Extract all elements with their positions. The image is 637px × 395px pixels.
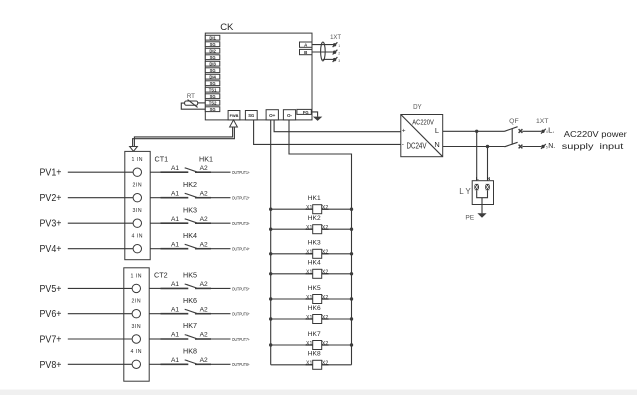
svg-text:DI2: DI2 — [209, 49, 216, 54]
wire PV7+ to CT2-3 — [68, 338, 132, 340]
svg-text:2IN: 2IN — [133, 183, 143, 189]
svg-text:FG: FG — [303, 110, 309, 115]
svg-text:1: 1 — [338, 44, 340, 48]
svg-text:HK7: HK7 — [183, 321, 197, 330]
switch contact HK4 (A1-A2) — [150, 231, 250, 252]
svg-text:X2: X2 — [322, 250, 328, 256]
svg-text:A1: A1 — [171, 216, 179, 223]
terminal 1XT-1 — [333, 42, 341, 48]
pin box SG (3) — [205, 68, 220, 73]
svg-text:HK4: HK4 — [183, 231, 197, 240]
svg-text:CK: CK — [220, 22, 234, 33]
svg-text:N: N — [487, 176, 491, 182]
ground PE — [477, 213, 486, 218]
junction dot N to LY — [486, 145, 489, 148]
svg-text:HK8: HK8 — [183, 346, 197, 355]
svg-text:HK3: HK3 — [308, 240, 321, 247]
switch contact HK8 (A1-A2) — [149, 346, 250, 367]
svg-text:HK4: HK4 — [308, 260, 321, 267]
svg-text:X2: X2 — [322, 205, 328, 211]
svg-text:PV4+: PV4+ — [40, 244, 62, 255]
thermistor RT strike line — [188, 100, 198, 108]
svg-text:X1: X1 — [306, 270, 312, 276]
svg-text:OUTPUT2+: OUTPUT2+ — [232, 196, 250, 201]
CT2 input circle 3 — [132, 335, 140, 343]
svg-text:AC220V power: AC220V power — [564, 130, 627, 139]
svg-text:SG: SG — [210, 55, 216, 60]
svg-text:X1: X1 — [306, 295, 312, 301]
svg-text:OUTPUT7+: OUTPUT7+ — [232, 337, 250, 342]
pin box SG (1) — [205, 42, 220, 47]
svg-text:SG: SG — [248, 113, 254, 118]
svg-text:HK2: HK2 — [308, 215, 321, 222]
svg-text:DI4: DI4 — [209, 75, 216, 80]
svg-text:HK6: HK6 — [308, 305, 321, 312]
svg-text:4 IN: 4 IN — [131, 349, 143, 355]
switch contact HK1 (A1-A2) — [150, 154, 250, 175]
wire RT to TS2 — [198, 102, 206, 104]
wire PV2+ to CT1-2 — [68, 197, 133, 199]
svg-text:HK3: HK3 — [183, 205, 197, 214]
svg-text:1 IN: 1 IN — [131, 273, 143, 279]
wire L junction down to LY — [476, 131, 478, 184]
wire FG to ground — [311, 112, 317, 117]
svg-text:X2: X2 — [322, 315, 328, 321]
svg-text:A2: A2 — [200, 332, 208, 339]
wire PV5+ to CT2-1 — [68, 287, 132, 289]
CT1 input circle 3 — [133, 219, 141, 227]
surge protector LY outline — [472, 181, 493, 205]
DY diagonal divider — [401, 115, 443, 157]
svg-text:FWB: FWB — [230, 114, 239, 118]
svg-text:OUTPUT1+: OUTPUT1+ — [232, 170, 250, 175]
power supply DY outline — [401, 115, 443, 157]
svg-text:DI3: DI3 — [209, 62, 216, 67]
svg-text:PV2+: PV2+ — [40, 193, 62, 204]
relay coil HK2 (X1-X2) — [271, 215, 352, 234]
hollow arrowhead into CT1 — [130, 147, 138, 152]
breaker QF contact x mark (N) — [519, 145, 523, 149]
svg-text:X2: X2 — [322, 341, 328, 347]
svg-text:HK1: HK1 — [199, 154, 213, 163]
svg-text:SG: SG — [210, 68, 216, 73]
svg-text:supply input: supply input — [562, 142, 624, 151]
svg-text:L.: L. — [548, 127, 555, 134]
pin box DI2 — [205, 48, 220, 53]
wire PV6+ to CT2-2 — [68, 313, 132, 315]
svg-text:4 IN: 4 IN — [132, 234, 144, 240]
svg-text:L: L — [435, 126, 439, 135]
svg-text:2: 2 — [338, 51, 340, 55]
svg-text:A2: A2 — [200, 241, 208, 248]
svg-text:A1: A1 — [171, 306, 179, 313]
pin box TS2 — [205, 100, 220, 105]
svg-text:A2: A2 — [200, 357, 208, 364]
svg-text:X1: X1 — [306, 361, 312, 367]
CT2 block outline — [124, 268, 149, 381]
svg-text:HK1: HK1 — [308, 195, 321, 202]
wire right bus from O- — [289, 120, 352, 365]
svg-text:1 IN: 1 IN — [132, 157, 144, 163]
svg-text:PV7+: PV7+ — [40, 335, 62, 346]
junction dots on buses at HK4 rung — [269, 272, 353, 275]
svg-text:+: + — [402, 128, 406, 135]
svg-text:LY: LY — [459, 187, 473, 196]
breaker QF pole L blade — [505, 127, 518, 132]
svg-text:A2: A2 — [200, 281, 208, 288]
relay coil HK8 (X1-X2) — [271, 351, 352, 370]
wire PV3+ to CT1-3 — [68, 222, 133, 224]
svg-text:A1: A1 — [171, 165, 179, 172]
switch contact HK6 (A1-A2) — [149, 296, 250, 317]
svg-text:RT: RT — [187, 93, 195, 100]
svg-text:HK6: HK6 — [183, 296, 197, 305]
svg-text:HK2: HK2 — [183, 180, 197, 189]
svg-text:HK8: HK8 — [308, 351, 321, 358]
wire SPD L to common — [477, 190, 488, 198]
cable shield ellipse — [321, 42, 326, 61]
svg-text:X1: X1 — [306, 341, 312, 347]
thermistor RT body — [185, 101, 198, 105]
hollow arrowhead into FWB — [230, 120, 238, 127]
wire left bus from O+ — [270, 120, 272, 365]
terminal 1XT-N — [541, 144, 548, 149]
junction dots on buses at HK3 rung — [269, 252, 353, 255]
svg-text:X1: X1 — [306, 250, 312, 256]
pin box SG (6) — [205, 107, 220, 112]
svg-text:A1: A1 — [171, 357, 179, 364]
CT2 input circle 1 — [132, 284, 140, 292]
svg-text:DI1: DI1 — [209, 36, 216, 41]
junction dots on buses at HK5 rung — [269, 297, 353, 300]
svg-text:OUTPUT5+: OUTPUT5+ — [232, 286, 250, 291]
svg-text:TS2: TS2 — [209, 101, 217, 106]
pin box O- — [283, 110, 295, 120]
svg-text:HK5: HK5 — [183, 271, 197, 280]
svg-text:L: L — [476, 176, 479, 182]
scanner artifact band at bottom — [0, 390, 637, 395]
svg-text:A2: A2 — [200, 190, 208, 197]
svg-text:SG: SG — [210, 107, 216, 112]
wire RT to SG — [181, 103, 205, 109]
wire DY L output to QF — [443, 130, 505, 132]
breaker QF contact x mark (L) — [519, 129, 523, 133]
wire CK pin B to 1XT terminal 2 — [312, 51, 333, 53]
svg-text:CT1: CT1 — [155, 154, 169, 163]
svg-text:X1: X1 — [306, 205, 312, 211]
svg-text:A1: A1 — [171, 241, 179, 248]
svg-text:AC220V: AC220V — [412, 118, 434, 127]
relay coil HK5 (X1-X2) — [271, 285, 352, 304]
switch contact HK5 (A1-A2) — [149, 271, 250, 292]
junction dot L to LY — [475, 130, 478, 133]
svg-text:A1: A1 — [171, 281, 179, 288]
svg-text:PV5+: PV5+ — [40, 284, 62, 295]
svg-text:1XT: 1XT — [536, 118, 548, 125]
ground at FG — [313, 117, 322, 121]
pin box SG (2) — [205, 55, 220, 60]
svg-text:PE: PE — [465, 215, 474, 222]
svg-text:3IN: 3IN — [132, 324, 142, 330]
svg-text:X2: X2 — [322, 225, 328, 231]
SPD element N — [485, 184, 490, 190]
svg-text:OUTPUT6+: OUTPUT6+ — [232, 312, 250, 317]
svg-text:QF: QF — [509, 118, 518, 125]
wire PV1+ to CT1-1 — [68, 171, 133, 173]
CT1 input circle 2 — [133, 194, 141, 202]
controller CK outline — [205, 33, 312, 120]
svg-text:X2: X2 — [322, 270, 328, 276]
wire common to PE ground — [481, 198, 483, 214]
svg-text:SG: SG — [210, 81, 216, 86]
svg-text:OUTPUT8+: OUTPUT8+ — [232, 362, 250, 367]
svg-text:SG: SG — [210, 94, 216, 99]
svg-text:X2: X2 — [322, 295, 328, 301]
svg-text:O+: O+ — [269, 113, 276, 118]
svg-text:TS1: TS1 — [209, 88, 217, 93]
svg-text:X1: X1 — [306, 315, 312, 321]
pin box SG (5) — [205, 94, 220, 99]
svg-text:OUTPUT3+: OUTPUT3+ — [232, 221, 250, 226]
svg-text:O-: O- — [287, 113, 293, 118]
svg-text:2IN: 2IN — [132, 299, 142, 305]
svg-text:OUTPUT4+: OUTPUT4+ — [232, 247, 250, 252]
svg-text:B: B — [304, 50, 307, 55]
CT2 input circle 4 — [132, 360, 140, 368]
hollow link cable CT1 to FWB (outer edge) — [133, 127, 235, 147]
switch contact HK2 (A1-A2) — [150, 180, 250, 201]
svg-text:N.: N. — [548, 143, 555, 150]
svg-text:A1: A1 — [171, 332, 179, 339]
relay coil HK6 (X1-X2) — [271, 305, 352, 324]
CT1 input circle 1 — [133, 168, 141, 176]
junction dots on buses at HK7 rung — [269, 343, 353, 346]
wire N junction down to LY — [487, 147, 489, 185]
wire PV4+ to CT1-4 — [68, 248, 133, 250]
junction dots on buses at HK2 rung — [269, 228, 353, 231]
pin box A — [300, 42, 313, 48]
wire DY N output to QF — [443, 146, 505, 148]
wire cable shield to 1XT terminal 3 — [323, 58, 334, 60]
CT1 block outline — [125, 151, 150, 259]
pin box TS1 — [205, 87, 220, 92]
SPD element L — [474, 184, 479, 190]
CT2 input circle 2 — [132, 310, 140, 318]
svg-text:DY: DY — [413, 104, 422, 111]
hollow link cable CT1 to FWB (inner edge) — [134, 127, 232, 147]
terminal 1XT-L — [541, 129, 548, 134]
svg-text:N: N — [434, 140, 439, 149]
svg-text:CT2: CT2 — [154, 270, 168, 279]
svg-text:X2: X2 — [322, 361, 328, 367]
svg-text:PV3+: PV3+ — [40, 219, 62, 230]
junction dots on buses at HK1 rung — [269, 208, 353, 211]
pin box DI4 — [205, 74, 220, 79]
pin box B — [300, 49, 313, 55]
pin box O+ — [266, 110, 278, 120]
svg-text:SG: SG — [210, 42, 216, 47]
svg-text:X1: X1 — [306, 225, 312, 231]
relay coil HK1 (X1-X2) — [271, 195, 352, 214]
pin box SG (out) — [245, 111, 257, 120]
svg-text:PV1+: PV1+ — [40, 168, 62, 179]
svg-text:3: 3 — [338, 59, 340, 63]
pin box FG — [297, 109, 311, 114]
relay coil HK7 (X1-X2) — [271, 331, 352, 350]
svg-text:-: - — [402, 141, 404, 148]
breaker QF pole N blade — [505, 142, 518, 147]
svg-text:HK7: HK7 — [308, 331, 321, 338]
svg-text:PV8+: PV8+ — [40, 360, 62, 371]
breaker QF mechanical link — [511, 128, 513, 144]
wire O+ to DY + input — [274, 120, 401, 132]
wire QF L to 1XT-L — [522, 130, 541, 132]
svg-text:A1: A1 — [171, 190, 179, 197]
svg-text:DC24V: DC24V — [407, 141, 428, 150]
CT1 input circle 4 — [133, 245, 141, 253]
pin box FWB — [228, 111, 240, 120]
svg-text:A2: A2 — [200, 216, 208, 223]
wire QF N to 1XT-N — [522, 146, 541, 148]
junction dots on buses at HK6 rung — [269, 317, 353, 320]
svg-text:3IN: 3IN — [133, 208, 143, 214]
wire PV8+ to CT2-4 — [68, 363, 132, 365]
relay coil HK4 (X1-X2) — [271, 260, 352, 279]
switch contact HK7 (A1-A2) — [149, 321, 250, 342]
svg-text:PV6+: PV6+ — [40, 309, 62, 320]
svg-text:A2: A2 — [200, 306, 208, 313]
pin box SG (4) — [205, 81, 220, 86]
pin box DI1 — [205, 35, 220, 40]
relay coil HK3 (X1-X2) — [271, 240, 352, 259]
terminal 1XT-3 — [333, 57, 341, 63]
svg-text:1XT: 1XT — [330, 35, 341, 41]
wire CK pin A to 1XT terminal 1 — [312, 44, 333, 46]
pin box DI3 — [205, 61, 220, 66]
wire SG to DY - input — [254, 120, 401, 144]
switch contact HK3 (A1-A2) — [150, 205, 250, 226]
svg-text:A2: A2 — [200, 165, 208, 172]
svg-text:HK5: HK5 — [308, 285, 321, 292]
terminal 1XT-2 — [333, 50, 341, 56]
